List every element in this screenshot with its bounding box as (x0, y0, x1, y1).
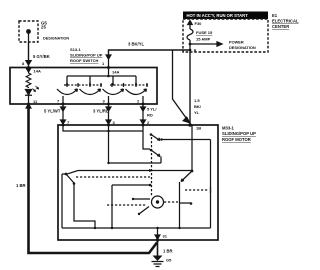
electrical center dashed box (183, 19, 268, 52)
svg-text:ROOF SWITCH: ROOF SWITCH (70, 58, 99, 63)
svg-text:E1: E1 (272, 13, 278, 18)
svg-text:A: A (194, 48, 197, 53)
relay linkage dashed right (185, 189, 209, 191)
relay arm upper (143, 131, 150, 149)
ground symbol G5 (153, 256, 163, 262)
dashed row low (107, 204, 146, 206)
arm at junction (181, 171, 192, 182)
motor internal bus y131 (63, 125, 143, 131)
switch S13-1 title (70, 47, 103, 63)
motor M33-1 title (222, 126, 256, 143)
wire fuse to pin A (189, 40, 191, 52)
wire y185 to x112 rail (112, 185, 150, 228)
svg-text:14A: 14A (34, 69, 41, 74)
wire fuse to motor 1.5 BK/YL (189, 52, 191, 124)
svg-text:14A: 14A (112, 70, 119, 75)
svg-text:G5: G5 (166, 258, 172, 263)
wire switch pin3 to motor (3 YL/RD) (108, 104, 110, 124)
node pin A junction (189, 49, 192, 52)
svg-text:5 GY/BK: 5 GY/BK (33, 54, 50, 59)
svg-text:M33-1: M33-1 (222, 126, 235, 131)
wire x192 from pin 1B (191, 125, 193, 171)
pin 1 dot (107, 66, 110, 69)
motor linkage dashed (164, 201, 178, 203)
svg-text:25: 25 (41, 25, 46, 30)
wire y171 (78, 170, 192, 172)
svg-text:SLIDING/POP UP: SLIDING/POP UP (70, 52, 103, 57)
svg-text:8: 8 (22, 61, 25, 66)
svg-text:1: 1 (102, 61, 105, 66)
wire switch pin2 to motor (5 YL/RD) (142, 104, 144, 124)
svg-text:1 BR: 1 BR (163, 249, 173, 254)
ground point G5 dashed box (19, 21, 38, 42)
svg-text:3 BK/YL: 3 BK/YL (128, 42, 144, 47)
wire fuse feed to switch (3 BK/YL) (109, 50, 191, 59)
pin F30 arrow (188, 21, 192, 25)
motor armature feed (133, 198, 150, 200)
connector arrow into switch pin 1 (106, 55, 111, 68)
svg-text:1 BR: 1 BR (16, 183, 26, 188)
svg-text:3 YL/RD: 3 YL/RD (93, 109, 109, 114)
wire G5 to switch pin 8 (28, 42, 30, 60)
svg-text:31: 31 (163, 234, 168, 239)
wiper arc 1 (57, 89, 78, 95)
svg-text:1B: 1B (196, 126, 201, 131)
ground dot (26, 29, 31, 34)
power designation arrow (190, 42, 222, 46)
fuse F30 symbol (187, 29, 193, 40)
motor brush arm (139, 207, 149, 215)
svg-text:POWER: POWER (229, 40, 244, 45)
pin 3 (107, 103, 110, 106)
svg-text:DESIGNATION: DESIGNATION (229, 45, 256, 50)
wire arm to right rail (162, 139, 211, 141)
label E1 ELECTRICAL CENTER (272, 13, 299, 29)
LED illumination lamp (25, 90, 32, 105)
wire switch pin7 to motor (5 YL/WT) (62, 104, 64, 124)
svg-text:1.5: 1.5 (194, 98, 200, 103)
svg-text:S13-1: S13-1 (70, 47, 81, 52)
relay arm lower (150, 149, 153, 152)
svg-text:FUSE 15: FUSE 15 (196, 30, 213, 35)
relay linkage dashed vertical (151, 137, 153, 196)
ground wire from pin 11 (1 BR) thick (26, 104, 31, 108)
wire y163 (109, 162, 162, 164)
svg-text:YL: YL (194, 110, 200, 115)
connector arrowhead to motor junction (183, 117, 190, 123)
right rail (210, 140, 212, 229)
connector arrow into pin 8 (26, 60, 31, 67)
sliding/pop-up roof switch box (10, 68, 157, 105)
wire x108 down (108, 131, 110, 163)
left contact arm (67, 171, 79, 175)
wire branch to motor feed (right drop) (173, 50, 187, 119)
connector arrow at ground pin (155, 235, 160, 239)
pin 7 (62, 103, 65, 106)
linkage arrow tip (149, 169, 152, 171)
svg-text:ELECTRICAL: ELECTRICAL (272, 19, 299, 24)
ground bus (62, 227, 211, 229)
black header bar HOT IN ACCY RUN OR START (183, 12, 268, 20)
svg-text:DESIGNATION: DESIGNATION (43, 37, 69, 41)
svg-text:RD: RD (147, 113, 153, 118)
wire to ground G5 (157, 240, 159, 256)
node power junction (189, 43, 192, 46)
pin 11 (27, 103, 30, 106)
svg-text:5 YL/WT: 5 YL/WT (44, 109, 61, 114)
sliding/pop-up roof motor box (58, 125, 218, 240)
wire ground dot stub (28, 33, 30, 42)
switch linkage dashed right (110, 84, 149, 86)
motor (152, 196, 164, 208)
ground stub (157, 228, 159, 240)
svg-text:BK/: BK/ (194, 104, 202, 109)
switch linkage dashed left (64, 84, 103, 86)
pin 8 dot (27, 66, 30, 69)
svg-text:SLIDING/POP UP: SLIDING/POP UP (222, 131, 256, 136)
arm terminal rail (180, 182, 192, 228)
pin dots on motor box top (62, 124, 65, 127)
LED arrows (33, 86, 39, 92)
wiper arc 4 (126, 89, 147, 95)
pin stubs bottom (63, 96, 143, 104)
wiper arc 2 (80, 89, 101, 95)
dashed linkage left (76, 176, 150, 178)
left rails down (62, 174, 95, 228)
svg-text:HOT IN ACC'Y, RUN OR START: HOT IN ACC'Y, RUN OR START (187, 13, 249, 18)
pin 2 (142, 103, 145, 106)
terminal bars (67, 83, 147, 88)
bus drops (67, 76, 136, 84)
wiper arc 3 (103, 89, 124, 95)
svg-text:ROOF MOTOR: ROOF MOTOR (222, 137, 251, 142)
svg-text:7: 7 (57, 99, 60, 104)
pin dot ground (156, 238, 159, 241)
switch internal bus (67, 68, 136, 77)
svg-text:15 AMP: 15 AMP (196, 37, 211, 42)
svg-text:3: 3 (103, 99, 106, 104)
connector arrow inner pin 8 (27, 69, 31, 72)
svg-text:5 YL/: 5 YL/ (147, 107, 157, 112)
resistor (26, 68, 31, 89)
svg-text:2: 2 (137, 99, 140, 104)
wire fuse top (189, 24, 191, 29)
svg-text:F30: F30 (195, 21, 203, 26)
svg-text:CENTER: CENTER (272, 24, 289, 29)
